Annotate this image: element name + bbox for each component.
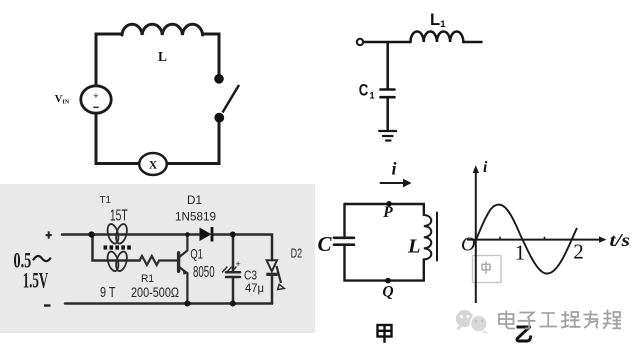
svg-text:15T: 15T <box>110 208 128 225</box>
svg-text:T1: T1 <box>100 194 112 206</box>
svg-text:Q1: Q1 <box>190 247 203 262</box>
svg-text:2: 2 <box>573 240 584 264</box>
svg-text:O: O <box>461 234 475 256</box>
svg-text:i: i <box>483 159 488 176</box>
svg-text:C: C <box>359 81 369 99</box>
svg-text:P: P <box>383 204 393 221</box>
svg-text:1.5V: 1.5V <box>23 268 49 293</box>
svg-text:1: 1 <box>515 241 526 265</box>
svg-text:47μ: 47μ <box>245 281 264 295</box>
svg-text:X: X <box>149 160 158 172</box>
svg-text:1: 1 <box>369 91 375 102</box>
svg-text:t/s: t/s <box>610 230 631 250</box>
svg-text:+: + <box>236 259 241 269</box>
svg-text:D2: D2 <box>291 247 303 261</box>
svg-text:C: C <box>318 232 333 256</box>
svg-text:Q: Q <box>382 284 393 301</box>
svg-text:9 T: 9 T <box>100 285 116 301</box>
svg-text:+: + <box>93 92 98 102</box>
svg-text:1: 1 <box>440 19 446 30</box>
svg-text:i: i <box>392 159 397 179</box>
svg-text:VIN: VIN <box>55 94 70 106</box>
svg-text:1N5819: 1N5819 <box>175 212 216 224</box>
svg-text:L: L <box>407 236 421 258</box>
svg-text:L: L <box>430 11 440 29</box>
svg-text:8050: 8050 <box>193 264 215 281</box>
svg-text:200-500Ω: 200-500Ω <box>131 285 179 300</box>
svg-text:R1: R1 <box>141 273 154 285</box>
svg-text:D1: D1 <box>187 193 202 207</box>
svg-text:L: L <box>158 49 167 64</box>
